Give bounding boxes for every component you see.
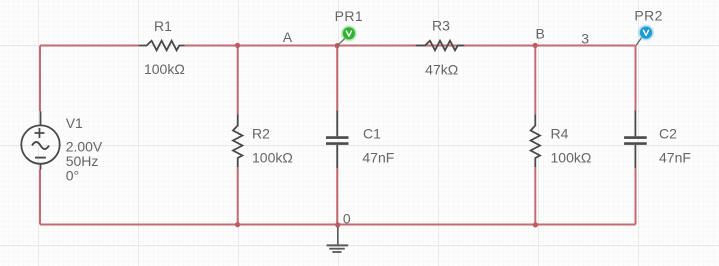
- svg-text:PR2: PR2: [634, 8, 662, 24]
- svg-text:R2: R2: [252, 126, 270, 142]
- svg-text:PR1: PR1: [335, 8, 363, 24]
- svg-text:47nF: 47nF: [659, 150, 691, 166]
- svg-text:47kΩ: 47kΩ: [425, 61, 458, 77]
- svg-text:V1: V1: [66, 115, 83, 131]
- svg-text:47nF: 47nF: [362, 150, 394, 166]
- svg-text:B: B: [536, 25, 545, 41]
- svg-text:0°: 0°: [66, 167, 79, 183]
- svg-text:100kΩ: 100kΩ: [551, 150, 592, 166]
- svg-text:C2: C2: [659, 126, 677, 142]
- svg-text:100kΩ: 100kΩ: [144, 61, 185, 77]
- svg-text:3: 3: [581, 30, 589, 46]
- svg-text:0: 0: [343, 211, 351, 227]
- svg-text:R1: R1: [154, 18, 172, 34]
- svg-text:C1: C1: [363, 126, 381, 142]
- svg-text:A: A: [283, 29, 293, 45]
- svg-text:100kΩ: 100kΩ: [252, 150, 293, 166]
- svg-text:R3: R3: [432, 18, 450, 34]
- svg-text:R4: R4: [551, 126, 569, 142]
